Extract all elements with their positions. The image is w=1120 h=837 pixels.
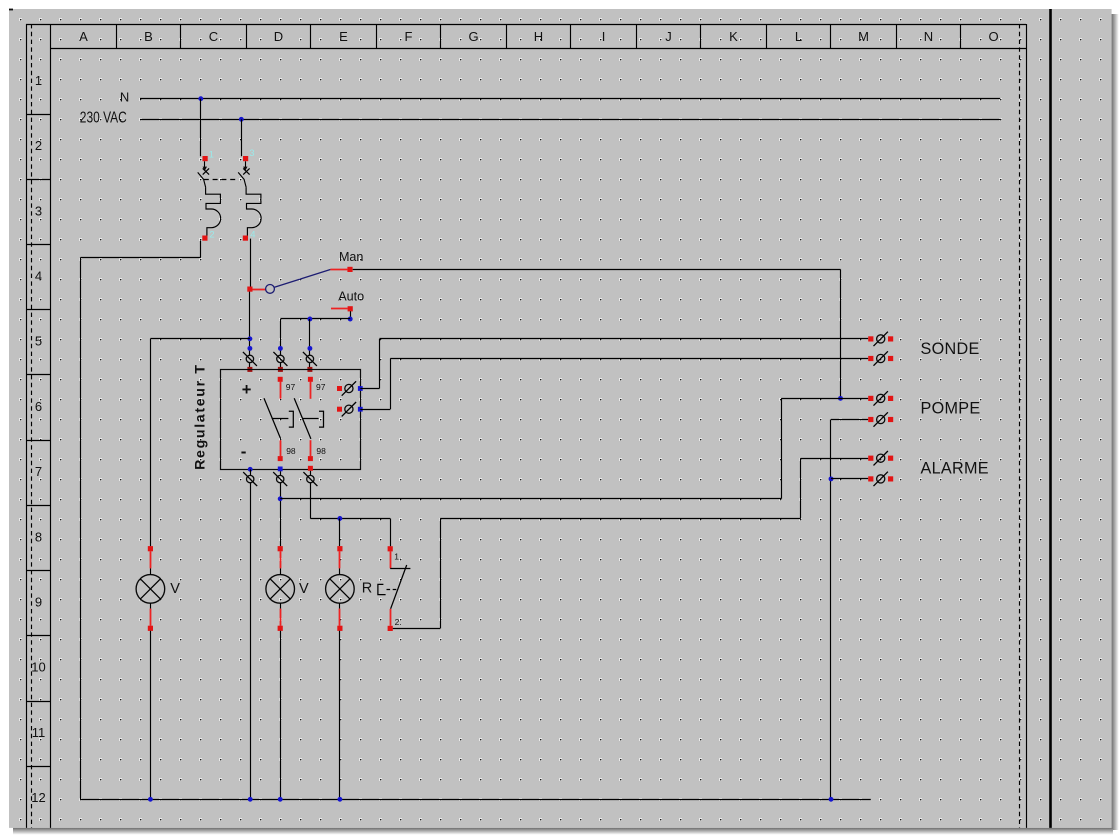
wire Q1 pole1 pin2 down — [200, 241, 202, 258]
S2 pin1 stub — [390, 551, 392, 568]
svg-text:J: J — [665, 29, 672, 44]
wire M column down (pompe2/alarme2) — [830, 420, 832, 800]
pushbutton S2 pin 1 — [388, 546, 393, 551]
wire Auto horizontal — [280, 318, 350, 320]
U1 right terminal B — [342, 402, 356, 416]
wire X6 down — [310, 483, 312, 519]
wire POMPE terminal 2 — [831, 419, 868, 421]
svg-text:C: C — [209, 29, 218, 44]
wire to terminal X2 — [280, 319, 282, 355]
U1 bottom pin col2 (blue) — [278, 467, 283, 472]
wire U1-A to sonde riser — [360, 388, 379, 390]
selector S1 blade (to Man) — [274, 270, 330, 288]
svg-text:3: 3 — [249, 148, 254, 159]
svg-text:3: 3 — [35, 203, 42, 218]
svg-text:H: H — [534, 29, 543, 44]
wire to terminal X3 — [309, 319, 311, 355]
svg-text:N: N — [924, 29, 933, 44]
svg-text:2: 2 — [35, 138, 42, 153]
X1 pin on box edge — [249, 363, 251, 367]
terminal POMPE 2 — [868, 412, 893, 426]
terminal ALARME 1 — [868, 451, 893, 465]
junction on 230 VAC at breaker Q1 pole 2 — [239, 117, 244, 122]
wire selector common down to X1 — [249, 292, 251, 356]
Man contact stub — [330, 269, 347, 271]
svg-text:V: V — [299, 581, 309, 597]
junction rail lamp H2 — [278, 797, 283, 802]
pushbutton S2 pin 2 — [388, 626, 393, 631]
wire to SONDE terminal 1 — [379, 338, 868, 340]
svg-text:G: G — [468, 29, 478, 44]
terminal X6 — [303, 472, 317, 486]
junction X3 branch — [307, 317, 312, 322]
S2 fixed contact bar — [390, 568, 410, 570]
wire U1 col3 to X6 — [310, 471, 312, 476]
wire S2 pin2 right — [393, 628, 440, 630]
svg-text:+: + — [242, 381, 252, 399]
wire left branch to lamp H1 rail — [150, 338, 250, 340]
junction rail M column — [829, 797, 834, 802]
svg-text:7: 7 — [35, 464, 42, 479]
junction on X5 wire (alarm feed) — [278, 496, 283, 501]
relay contact U1 97/98 #2 — [294, 377, 323, 461]
wire U1 col1 to X4 — [250, 469, 252, 475]
svg-text:5: 5 — [35, 334, 42, 349]
circuit breaker Q1 pole 2 — [238, 156, 261, 241]
sonde riser 2 — [390, 359, 392, 410]
svg-text:98: 98 — [286, 446, 296, 456]
S2 actuator link (dashed) — [387, 589, 398, 591]
wire Man to M column — [353, 269, 841, 271]
terminal ALARME 2 — [868, 472, 893, 486]
wire alarm feed horizontal — [280, 498, 781, 500]
svg-text:ALARME: ALARME — [921, 459, 989, 477]
Q1 mechanical link (dashed) — [204, 179, 239, 181]
Auto contact stub — [331, 308, 348, 310]
terminal X1 connected marker — [247, 346, 252, 351]
junction on N at breaker Q1 pole 1 — [198, 96, 203, 101]
X3 pin on box edge — [309, 363, 311, 367]
wire ALARME terminal 1 — [801, 458, 869, 460]
terminal SONDE 2 — [868, 351, 893, 365]
svg-text:I: I — [602, 29, 606, 44]
wire rail to lamp H1 — [150, 339, 152, 546]
wire ALARME to S2 pin 2 riser — [440, 518, 801, 520]
wire X5 down to lamp H2 — [280, 483, 282, 546]
svg-text:A: A — [79, 29, 88, 44]
wire U1 col2 to X5 — [280, 471, 282, 475]
svg-text:E: E — [339, 29, 348, 44]
svg-text:12: 12 — [31, 790, 45, 805]
relay contact U1 97/98 #1 — [264, 377, 293, 461]
svg-text:-: - — [241, 442, 247, 461]
wire Auto down — [350, 311, 352, 319]
svg-text:9: 9 — [35, 595, 42, 610]
svg-text:1: 1 — [35, 73, 42, 88]
svg-text:D: D — [274, 29, 283, 44]
bottom rail wire — [81, 799, 871, 801]
U1 right terminal A box pin (blue) — [358, 386, 363, 391]
svg-text:98: 98 — [316, 446, 326, 456]
svg-text:97: 97 — [316, 382, 326, 392]
wire N to Q1 pole1 pin 1 — [200, 99, 202, 157]
wire POMPE row 1 — [781, 398, 868, 400]
svg-text:O: O — [988, 29, 998, 44]
svg-text:4: 4 — [35, 269, 42, 284]
U1 right terminal B pin — [337, 407, 342, 412]
svg-text:8: 8 — [35, 529, 42, 544]
svg-text:K: K — [729, 29, 738, 44]
wire 230 VAC to Q1 pole2 pin 3 — [241, 119, 243, 156]
left rail wire (B column) — [80, 257, 82, 799]
wire M column down to POMPE junction — [840, 269, 842, 398]
wire ALARME terminal 2 — [831, 478, 868, 480]
wire S2 riser up — [440, 519, 442, 629]
svg-text:2: 2 — [209, 230, 214, 241]
svg-text:11: 11 — [32, 725, 46, 740]
svg-text:97: 97 — [286, 382, 296, 392]
circuit breaker Q1 pole 1 — [198, 156, 221, 241]
wire U1-B to sonde riser 2 — [360, 409, 390, 411]
svg-text:L: L — [795, 29, 802, 44]
wire Q1 pole2 pin4 to selector S1 — [250, 239, 252, 287]
U1 right terminal A — [342, 381, 356, 395]
junction ALARME 2 — [829, 476, 834, 481]
svg-text:1: 1 — [209, 150, 214, 161]
svg-text:R: R — [362, 580, 372, 596]
junction rail lamp H3 — [337, 797, 342, 802]
selector S1 pivot circle — [266, 285, 275, 294]
S2 actuator — [378, 584, 386, 594]
U1 bottom pin col3 (red) — [308, 466, 313, 471]
terminal X4 — [243, 472, 257, 486]
terminal SONDE 1 — [868, 332, 893, 346]
svg-text:SONDE: SONDE — [921, 340, 980, 358]
S2 blade — [391, 565, 407, 609]
U1 right terminal B box pin (blue) — [358, 407, 363, 412]
svg-text:1.: 1. — [394, 552, 401, 562]
X2 pin on box edge — [280, 363, 282, 367]
net N bus wire — [140, 98, 1000, 100]
junction left-branch on X1 wire — [247, 336, 252, 341]
selector S1 common pin — [247, 287, 252, 292]
terminal X5 — [273, 472, 287, 486]
svg-text:Regulateur T: Regulateur T — [192, 363, 208, 470]
svg-text:B: B — [144, 29, 153, 44]
wire to SONDE terminal 2 — [390, 358, 868, 360]
wire X6 to pushbutton S2 — [310, 518, 390, 520]
sonde riser 1 — [379, 339, 381, 389]
svg-text:M: M — [858, 29, 869, 44]
svg-text:N: N — [120, 89, 129, 104]
U1 bottom pin col1 (blue) — [248, 467, 253, 472]
wire X4 down to bottom rail — [250, 483, 252, 800]
junction rail X4 — [248, 797, 253, 802]
svg-text:POMPE: POMPE — [921, 400, 981, 418]
junction Auto corner — [348, 317, 353, 322]
selector S1 common stub — [253, 289, 266, 291]
wire junction down to lamp H3 — [339, 519, 341, 547]
svg-text:F: F — [405, 29, 413, 44]
wire jog to left rail — [81, 257, 201, 259]
junction lamp H3 feed — [337, 516, 342, 521]
terminal X3 connected marker — [307, 346, 312, 351]
lamp H3 — [326, 546, 355, 631]
lamp H2 — [266, 546, 295, 631]
terminal X2 connected marker — [278, 346, 283, 351]
wire down to S2 pin 1 — [390, 519, 392, 547]
svg-text:Man: Man — [339, 250, 364, 264]
Man contact pin — [347, 267, 352, 272]
junction rail lamp H1 — [148, 797, 153, 802]
terminal POMPE 1 — [868, 391, 893, 405]
regulator U1 box — [221, 370, 361, 470]
wire ALARME branch down — [800, 458, 802, 518]
svg-text:2.: 2. — [395, 617, 402, 627]
wire lamp H3 to rail — [339, 631, 341, 800]
wire POMPE branch down — [781, 398, 783, 498]
terminal X1 — [243, 352, 257, 366]
wire lamp H1 to rail — [150, 631, 152, 800]
terminal X3 — [303, 352, 317, 366]
terminal X2 — [273, 352, 287, 366]
U1 right terminal A pin — [337, 386, 342, 391]
junction POMPE feed — [838, 396, 843, 401]
svg-text:6: 6 — [35, 399, 42, 414]
lamp H1 — [136, 546, 165, 631]
svg-text:230 VAC: 230 VAC — [80, 109, 127, 126]
S2 pin2 stub — [390, 609, 392, 626]
net 230 VAC bus wire — [140, 119, 1001, 121]
svg-text:Auto: Auto — [338, 290, 364, 304]
svg-text:10: 10 — [31, 660, 45, 675]
wire lamp H2 to rail — [280, 631, 282, 800]
Auto contact pin — [348, 306, 353, 311]
svg-text:4: 4 — [250, 230, 255, 241]
svg-text:V: V — [170, 581, 180, 597]
